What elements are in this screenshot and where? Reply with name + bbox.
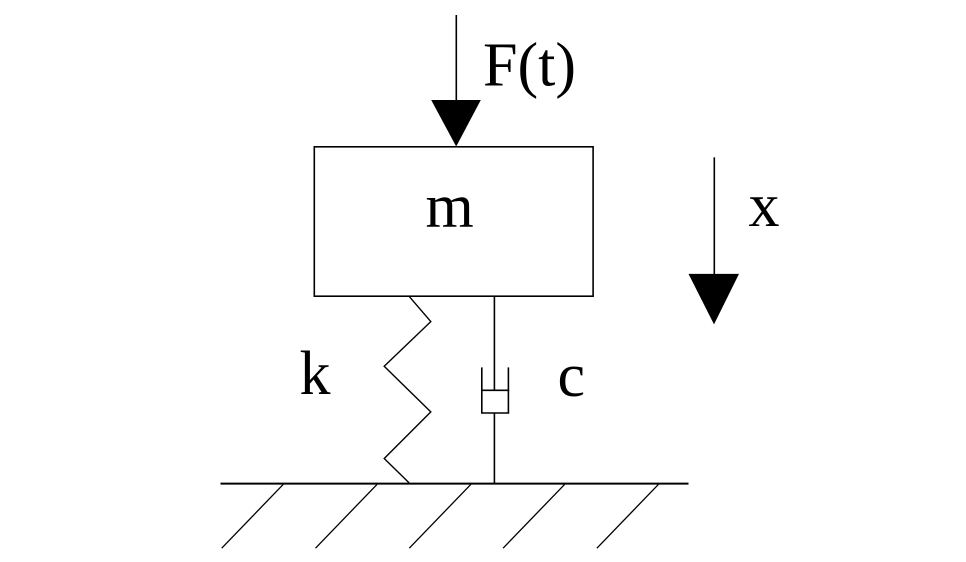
force arrow F(t) shaft (455, 15, 457, 103)
spring k (384, 296, 431, 483)
damper c upper rod (493, 296, 495, 390)
ground hatch 2 (316, 484, 378, 548)
displacement arrow x head (689, 274, 740, 325)
svg-text:k: k (300, 340, 331, 408)
svg-text:m: m (426, 172, 474, 240)
svg-text:x: x (749, 172, 780, 240)
damper c cylinder bottom (481, 412, 509, 414)
displacement arrow x shaft (713, 157, 715, 276)
svg-text:c: c (558, 342, 586, 410)
ground hatch 5 (597, 484, 659, 548)
ground hatch 1 (222, 484, 284, 548)
damper c cylinder left wall (481, 367, 483, 413)
ground line (221, 483, 689, 485)
svg-text:F(t): F(t) (483, 32, 576, 100)
mass block m (314, 147, 593, 296)
ground hatch 4 (503, 484, 564, 548)
force arrow F(t) head (431, 100, 481, 147)
ground hatch 3 (409, 484, 471, 548)
damper c piston plate (481, 389, 509, 391)
damper c lower rod (493, 413, 495, 484)
damper c cylinder right wall (507, 367, 509, 413)
